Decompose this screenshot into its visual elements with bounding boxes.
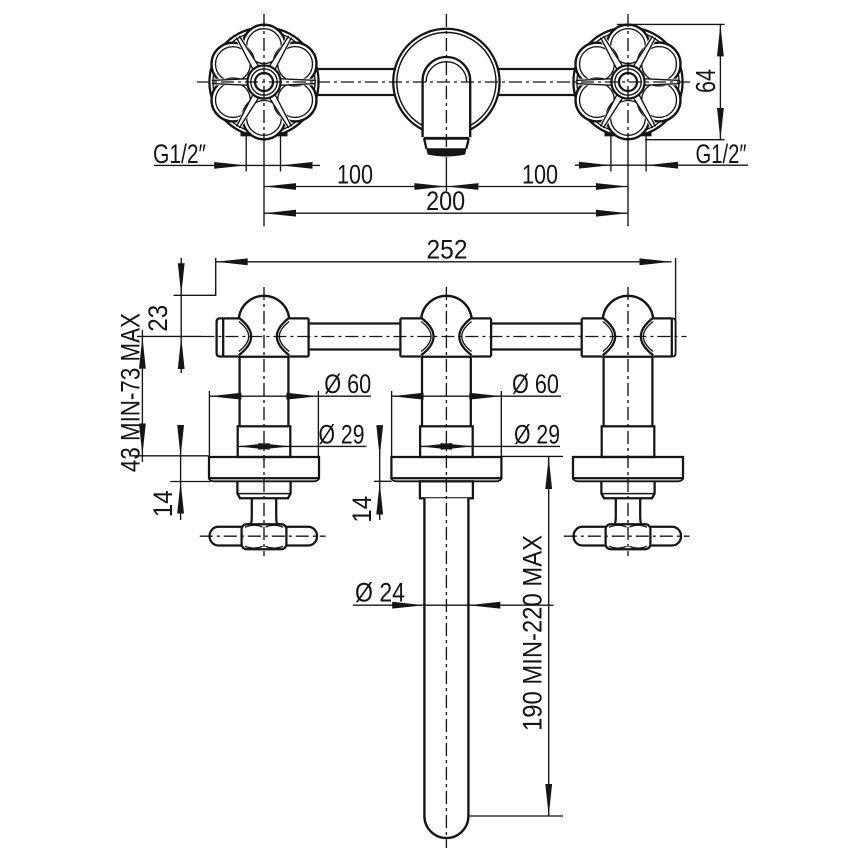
svg-text:252: 252 — [427, 235, 468, 265]
svg-text:14: 14 — [347, 496, 377, 523]
svg-text:Ø 60: Ø 60 — [324, 369, 371, 399]
svg-text:G1/2″: G1/2″ — [696, 139, 747, 169]
svg-text:Ø 29: Ø 29 — [514, 419, 560, 449]
svg-text:23: 23 — [143, 305, 173, 332]
svg-text:Ø 24: Ø 24 — [355, 578, 405, 608]
svg-text:200: 200 — [426, 186, 465, 216]
svg-text:100: 100 — [337, 160, 373, 190]
svg-text:14: 14 — [148, 490, 178, 517]
svg-text:G1/2″: G1/2″ — [153, 139, 206, 169]
svg-text:Ø 60: Ø 60 — [512, 369, 559, 399]
svg-text:190 MIN-220 MAX: 190 MIN-220 MAX — [518, 535, 548, 731]
svg-text:43 MIN-73 MAX: 43 MIN-73 MAX — [116, 313, 146, 472]
svg-text:Ø 29: Ø 29 — [319, 419, 365, 449]
svg-text:64: 64 — [690, 69, 721, 93]
svg-text:100: 100 — [522, 160, 558, 190]
